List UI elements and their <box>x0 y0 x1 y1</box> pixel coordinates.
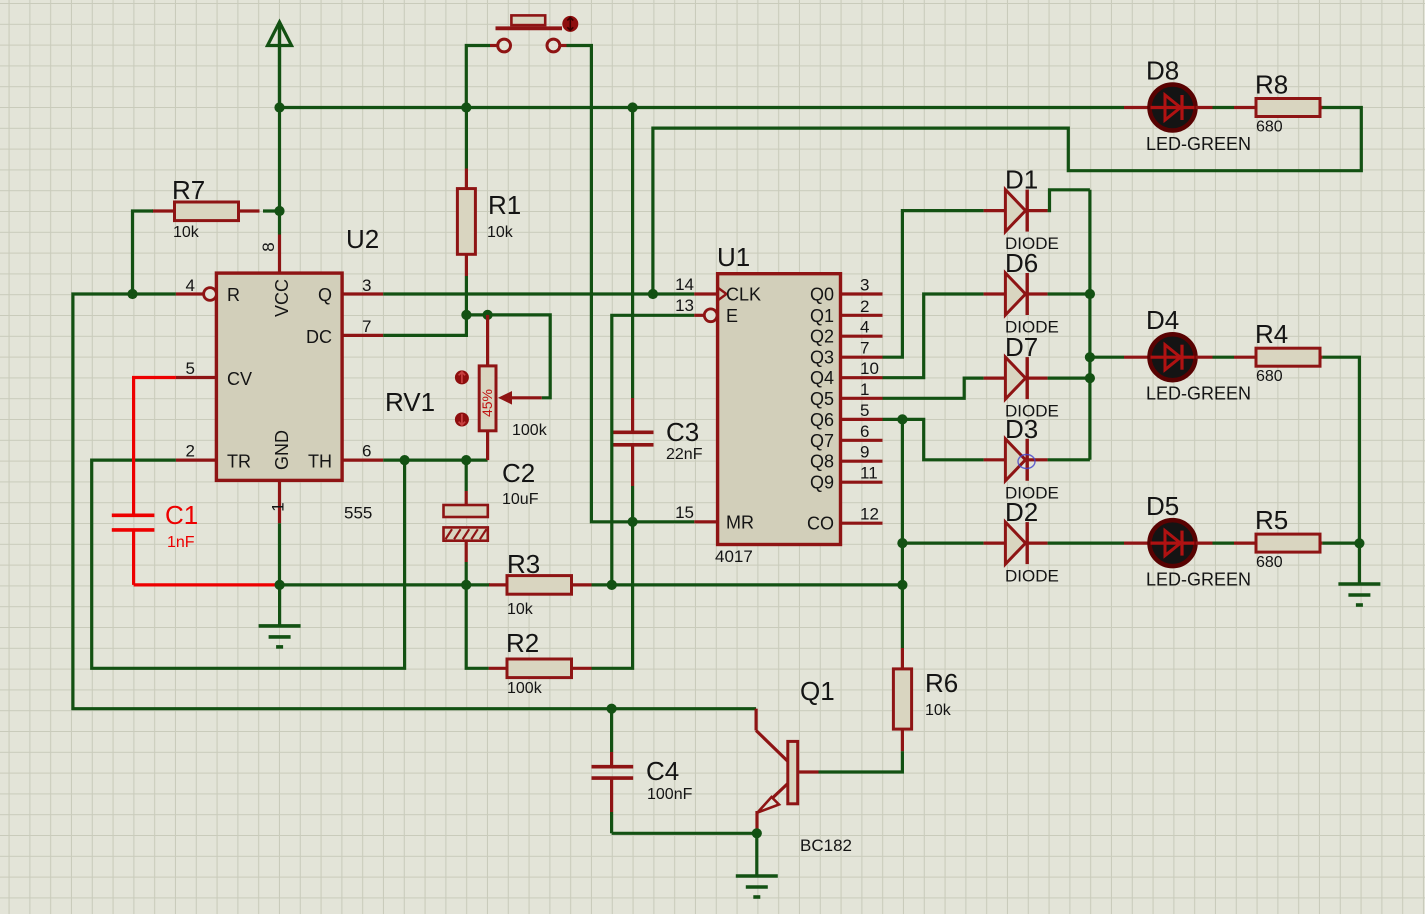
svg-text:6: 6 <box>362 442 371 461</box>
U2 pin 8 VCC stub <box>278 235 281 274</box>
transistor Q1 <box>754 709 757 731</box>
resistor R3 <box>489 583 507 586</box>
U1 pin 2 Q1 stub <box>841 314 883 317</box>
svg-text:Q4: Q4 <box>810 368 834 388</box>
RV1 wiper arrow <box>502 396 542 399</box>
push button SW <box>511 15 545 25</box>
svg-text:E: E <box>726 306 738 326</box>
RV1 actuator up <box>455 370 469 384</box>
U1 pin 7 Q3 stub <box>841 356 883 359</box>
svg-text:C2: C2 <box>502 458 535 488</box>
svg-text:Q9: Q9 <box>810 473 834 493</box>
wire MR node to U1 MR pin <box>633 520 695 523</box>
diode D6 <box>984 292 1006 295</box>
power symbol VCC <box>268 22 292 46</box>
U1 pin 5 Q6 stub <box>841 418 883 421</box>
node bus-D7 <box>1085 373 1095 383</box>
wire D7 cathode to bus <box>1048 377 1090 380</box>
resistor R1 <box>465 169 468 189</box>
svg-text:100k: 100k <box>512 422 548 439</box>
wire D5 to R5 <box>1213 541 1235 544</box>
led D5 <box>1124 541 1150 544</box>
svg-text:LED-GREEN: LED-GREEN <box>1146 570 1251 590</box>
svg-text:BC182: BC182 <box>800 836 852 855</box>
resistor R6 <box>901 648 904 669</box>
svg-text:680: 680 <box>1256 554 1283 571</box>
svg-text:VCC: VCC <box>272 279 292 317</box>
wire Q6 row <box>883 418 903 421</box>
svg-text:Q3: Q3 <box>810 348 834 368</box>
no-connect marker on D3 <box>1018 455 1035 469</box>
wire U2 pin1 to ground <box>278 523 281 585</box>
svg-text:U2: U2 <box>346 224 379 254</box>
svg-text:R8: R8 <box>1255 70 1288 100</box>
svg-text:DIODE: DIODE <box>1005 567 1059 586</box>
ground symbol right <box>1358 543 1361 584</box>
wire D8 to R8 <box>1213 106 1235 109</box>
wire R6 bottom to collector <box>819 751 903 772</box>
wire pin4 node to U2 R pin <box>133 292 176 295</box>
svg-text:CLK: CLK <box>726 285 761 305</box>
node D2 row junction <box>897 538 907 548</box>
svg-text:7: 7 <box>362 317 371 336</box>
svg-text:D2: D2 <box>1005 497 1038 527</box>
node C4 junction <box>607 704 617 714</box>
led D8 <box>1124 106 1150 109</box>
node R7-VCC junction <box>274 206 284 216</box>
node DC-R1 junction <box>461 310 471 320</box>
U1 pin 10 Q4 stub <box>841 376 883 379</box>
svg-text:15: 15 <box>675 503 694 522</box>
led D4 <box>1124 356 1150 359</box>
node RV1 top junction <box>483 310 493 320</box>
svg-text:TH: TH <box>308 452 332 472</box>
resistor R8 <box>1234 106 1256 109</box>
wire R7 right to VCC node <box>263 209 280 212</box>
svg-text:10k: 10k <box>487 224 514 241</box>
RV1 actuator down <box>455 413 469 427</box>
wire diode bus <box>1088 190 1091 460</box>
U2 pin 6 TH stub <box>342 459 383 462</box>
wire D2 row <box>902 541 983 544</box>
svg-text:Q7: Q7 <box>810 431 834 451</box>
svg-text:2: 2 <box>186 442 195 461</box>
svg-text:Q0: Q0 <box>810 285 834 305</box>
svg-text:U1: U1 <box>717 242 750 272</box>
svg-text:R7: R7 <box>172 175 205 205</box>
svg-text:Q1: Q1 <box>810 306 834 326</box>
node C2 bottom junction <box>461 580 471 590</box>
potentiometer RV1 <box>486 315 489 366</box>
U1 pin 11 Q9 stub <box>841 481 883 484</box>
resistor R2 <box>489 667 507 670</box>
svg-text:4017: 4017 <box>715 547 753 566</box>
wire Q4 to D6 <box>883 294 984 378</box>
capacitor C1 <box>112 513 155 517</box>
svg-text:R3: R3 <box>507 549 540 579</box>
svg-text:10k: 10k <box>925 702 952 719</box>
capacitor C3 <box>631 108 634 399</box>
svg-text:CO: CO <box>807 514 834 534</box>
svg-text:R: R <box>227 285 240 305</box>
wire Q output to CLK <box>383 292 653 295</box>
U2 pin 4 R bubble <box>204 288 217 301</box>
node R6 top junction <box>897 580 907 590</box>
svg-text:13: 13 <box>675 296 694 315</box>
svg-text:8: 8 <box>259 242 278 251</box>
svg-text:D7: D7 <box>1005 332 1038 362</box>
svg-text:10k: 10k <box>173 224 200 241</box>
svg-text:100nF: 100nF <box>647 786 693 803</box>
svg-text:Q2: Q2 <box>810 327 834 347</box>
svg-text:R5: R5 <box>1255 505 1288 535</box>
svg-text:4: 4 <box>186 276 195 295</box>
wire ground row <box>280 583 490 586</box>
resistor R4 <box>1234 356 1256 359</box>
wire R2 left up to ground row <box>466 585 488 668</box>
wire DC node to RV1 top node <box>466 313 487 316</box>
wire R4 right down <box>1322 357 1359 543</box>
svg-text:RV1: RV1 <box>385 387 435 417</box>
U1 pin 1 Q5 stub <box>841 397 883 400</box>
svg-text:D1: D1 <box>1005 165 1038 195</box>
node TH junction A <box>400 455 410 465</box>
node 555 pin4 junction <box>127 289 137 299</box>
wire button right down to MR node <box>560 44 567 47</box>
wire R2 right up to MR node <box>592 522 633 669</box>
svg-text:45%: 45% <box>479 389 495 417</box>
ic U1 4017 body <box>718 274 841 545</box>
svg-text:C4: C4 <box>646 756 679 786</box>
node MR junction <box>628 517 638 527</box>
wire RV1 wiper loop <box>488 315 551 398</box>
wire D1 cathode to bus <box>1048 190 1090 211</box>
svg-text:10uF: 10uF <box>502 491 539 508</box>
svg-text:C3: C3 <box>666 417 699 447</box>
wire CLK node to R8 return <box>653 108 1361 295</box>
wire R5 right to ground node <box>1322 541 1359 544</box>
svg-text:14: 14 <box>675 275 694 294</box>
U1 pin 14 CLK <box>694 292 717 295</box>
wire D6 cathode to bus <box>1048 292 1090 295</box>
node E pulldown junction <box>607 580 617 590</box>
svg-text:Q8: Q8 <box>810 452 834 472</box>
svg-text:Q6: Q6 <box>810 410 834 430</box>
wire Q6 to D3 <box>902 419 983 459</box>
capacitor C2 <box>465 460 468 491</box>
U2 pin 7 DC stub <box>342 334 383 337</box>
U1 pin 13 E bubble <box>704 309 717 322</box>
U2 pin 2 TR stub <box>176 459 217 462</box>
svg-text:11: 11 <box>860 464 878 483</box>
ground symbol Q1 <box>755 833 758 876</box>
svg-text:5: 5 <box>860 401 869 420</box>
U1 pin 12 CO stub <box>841 522 883 525</box>
wire Q6 down to R6 <box>901 419 904 648</box>
svg-text:D5: D5 <box>1146 491 1179 521</box>
svg-text:Q: Q <box>318 285 332 305</box>
svg-text:3: 3 <box>860 276 869 295</box>
svg-text:680: 680 <box>1256 368 1283 385</box>
wire C4 bottom to emitter node <box>612 832 757 835</box>
ground symbol U2 <box>278 585 281 626</box>
svg-text:R4: R4 <box>1255 319 1288 349</box>
svg-text:MR: MR <box>726 513 754 533</box>
wire bus to D4 <box>1090 356 1124 359</box>
svg-text:12: 12 <box>860 505 879 524</box>
diode D3 <box>984 458 1006 461</box>
wire D3 cathode to bus <box>1048 458 1090 461</box>
wire D2 cathode to D5 <box>1048 541 1124 544</box>
U2 pin 5 CV stub <box>176 376 217 379</box>
wire R7 left down to pin-R node <box>133 211 154 294</box>
wire Q3 to D1 <box>883 211 984 358</box>
svg-text:R2: R2 <box>506 628 539 658</box>
svg-text:D6: D6 <box>1005 248 1038 278</box>
wire R1 top to VCC rail <box>465 108 468 169</box>
U1 pin 4 Q2 stub <box>841 335 883 338</box>
svg-text:6: 6 <box>860 422 869 441</box>
node ground junction <box>275 580 285 590</box>
svg-text:4: 4 <box>860 318 869 337</box>
svg-text:1nF: 1nF <box>167 534 195 551</box>
resistor R5 <box>1234 541 1256 544</box>
wire TR loop (pin2 to TH node) <box>92 460 405 668</box>
wire C1 bottom to ground node <box>134 583 280 586</box>
diode D2 <box>984 541 1006 544</box>
U2 pin 1 GND stub <box>278 480 281 523</box>
svg-text:Q5: Q5 <box>810 389 834 409</box>
wire VCC down to U2 pin 8 <box>278 108 281 235</box>
diode D7 <box>984 377 1006 380</box>
svg-text:LED-GREEN: LED-GREEN <box>1146 134 1251 154</box>
svg-text:1: 1 <box>268 502 287 511</box>
U1 pin 3 Q0 stub <box>841 292 883 295</box>
node bus-D6 <box>1085 289 1095 299</box>
wire left loop (pin 4 to Q1 base / C4) <box>73 294 612 709</box>
button actuator <box>562 16 578 32</box>
wire CV red net <box>134 378 176 516</box>
node VCC-rail junction B <box>461 102 471 112</box>
ic U2 555 body <box>216 273 342 480</box>
svg-text:10k: 10k <box>507 601 534 618</box>
svg-text:9: 9 <box>860 443 869 462</box>
svg-text:5: 5 <box>186 359 195 378</box>
svg-text:555: 555 <box>344 504 372 523</box>
wire VCC rail <box>280 106 1125 109</box>
svg-text:D4: D4 <box>1146 305 1179 335</box>
svg-text:CV: CV <box>227 369 252 389</box>
node CLK junction <box>648 289 658 299</box>
svg-text:R1: R1 <box>488 190 521 220</box>
node VCC-rail junction A <box>274 102 284 112</box>
U1 pin 6 Q7 stub <box>841 439 883 442</box>
svg-text:10: 10 <box>860 359 879 378</box>
svg-text:C1: C1 <box>165 500 198 530</box>
svg-text:TR: TR <box>227 452 251 472</box>
U2 pin 3 Q stub <box>342 292 383 295</box>
svg-text:680: 680 <box>1256 119 1283 136</box>
wire R3 right to R6 top <box>592 583 903 586</box>
U1 pin 15 MR <box>694 520 717 523</box>
node TH junction B <box>461 455 471 465</box>
capacitor C4 <box>610 709 613 752</box>
node emitter junction <box>752 828 762 838</box>
svg-text:1: 1 <box>860 380 869 399</box>
wire E net (pin13 to R3) <box>612 315 695 585</box>
wire Q5 to D7 <box>883 378 984 398</box>
wire R1 bottom to DC node <box>465 276 468 315</box>
svg-text:R6: R6 <box>925 668 958 698</box>
svg-text:2: 2 <box>860 297 869 316</box>
wire DC to R1 node <box>383 315 466 336</box>
node Q6 junction <box>897 414 907 424</box>
node VCC-rail junction C <box>628 102 638 112</box>
svg-text:DC: DC <box>306 327 332 347</box>
svg-text:22nF: 22nF <box>666 446 703 463</box>
wire button left to VCC rail <box>490 44 498 47</box>
svg-text:Q1: Q1 <box>800 676 835 706</box>
svg-text:GND: GND <box>272 430 292 470</box>
U1 pin 9 Q8 stub <box>841 460 883 463</box>
node bus-D4row <box>1085 352 1095 362</box>
wire loop to transistor base <box>612 707 757 710</box>
node R4-R5 junction <box>1354 538 1364 548</box>
svg-text:D8: D8 <box>1146 56 1179 86</box>
resistor R7 <box>152 209 175 212</box>
svg-text:3: 3 <box>362 276 371 295</box>
svg-text:100k: 100k <box>507 680 543 697</box>
svg-text:D3: D3 <box>1005 414 1038 444</box>
wire D4 to R4 <box>1213 356 1235 359</box>
diode D1 <box>984 209 1006 212</box>
svg-text:LED-GREEN: LED-GREEN <box>1146 384 1251 404</box>
wire TH row <box>383 459 487 462</box>
svg-text:7: 7 <box>860 339 869 358</box>
